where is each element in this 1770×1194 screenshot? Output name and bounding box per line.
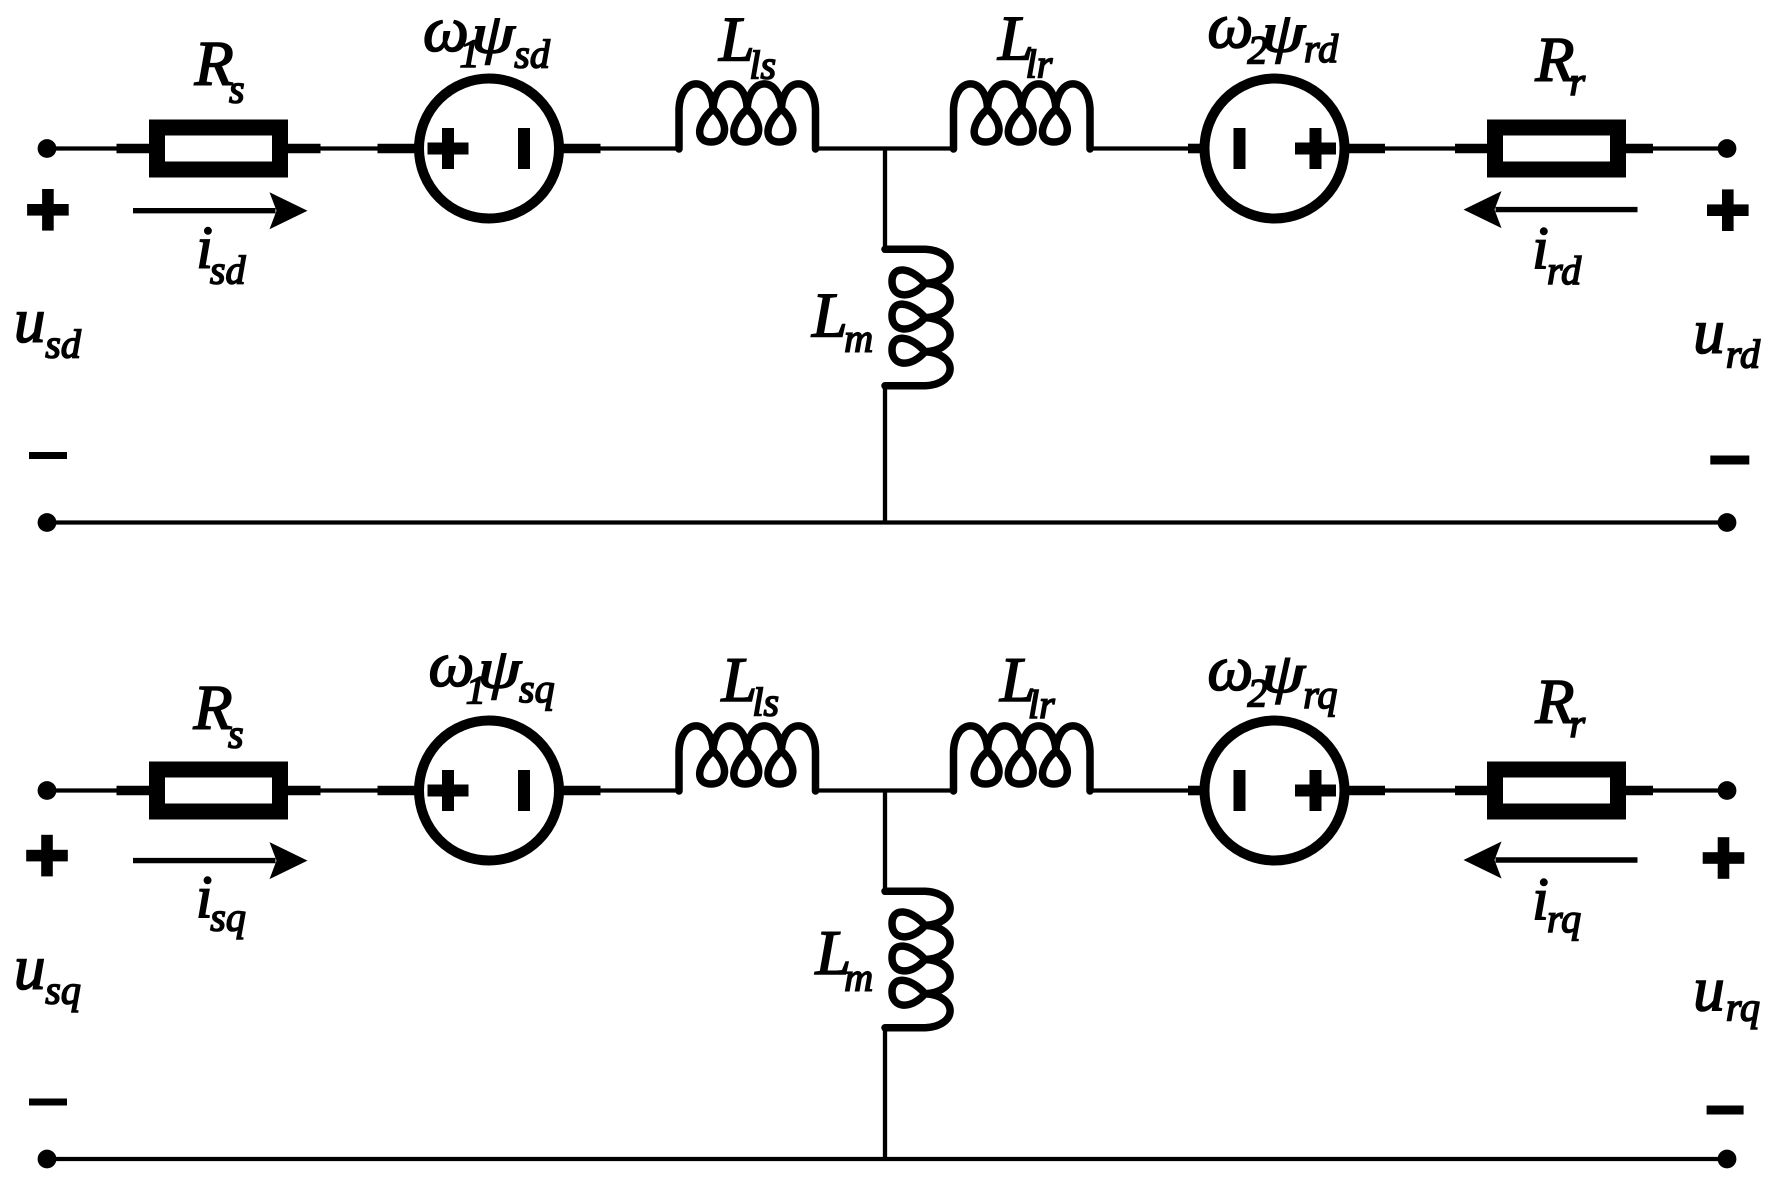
label u_rq [1693,954,1760,1029]
wire [1385,788,1455,792]
label ω₂ψ_rd [1207,0,1339,72]
svg-text:ψ: ψ [478,638,523,700]
wire [816,146,886,150]
svg-text:sq: sq [210,894,246,939]
wire [47,146,117,150]
current arrow i_sd [133,192,308,229]
wire [1090,146,1188,150]
label L_ls (q) [721,644,780,725]
inductor L_lr (q-axis rotor leakage) [954,726,1091,791]
wire (center branch down) [883,791,887,892]
wire [816,788,886,792]
label u_sq [14,933,81,1013]
wire (terminal stub) [1349,786,1386,796]
label L_m (q) [815,917,874,999]
resistor R_r (q-axis) [1495,770,1618,812]
dependent source ω₂ψ_rq (slip emf) [1205,721,1345,861]
label L_ls [718,3,776,87]
svg-text:R: R [193,672,233,743]
svg-text:s: s [228,712,244,757]
wire (terminal stub) [378,786,416,796]
wire (bottom rail) [47,520,1727,524]
svg-text:R: R [1534,24,1574,95]
wire [1653,788,1727,792]
node: bottom-right terminal [1718,513,1737,532]
wire (terminal stub) [563,786,601,796]
svg-text:R: R [1534,666,1574,737]
node: left terminal (d-axis stator) [38,139,57,158]
label R_r [1534,24,1585,104]
node: bottom-left terminal [38,513,57,532]
wire (terminal stub) [1188,786,1201,796]
svg-text:u: u [1693,954,1725,1024]
wire [1385,146,1455,150]
node: bottom-right terminal [1718,1150,1737,1169]
svg-text:ls: ls [749,42,776,87]
wire (terminal stub) [117,144,151,154]
wire [601,146,680,150]
polarity − (u_sq) [29,1099,67,1106]
svg-text:u: u [14,933,46,1003]
svg-text:lr: lr [1028,682,1055,727]
inductor L_m (q-axis magnetizing) [885,891,950,1028]
wire (terminal stub) [1625,786,1653,796]
svg-text:s: s [229,67,245,112]
label L_m [811,280,873,361]
label L_lr (q) [999,644,1055,727]
label u_rd [1693,297,1761,376]
wire (terminal stub) [1188,144,1201,154]
wire (center branch to rail) [883,1028,887,1159]
svg-text:sq: sq [519,666,555,711]
current arrow i_sq [133,842,308,879]
svg-text:rd: rd [1726,331,1761,376]
resistor R_s (d-axis) [157,128,280,170]
svg-text:L: L [811,280,848,351]
svg-text:sd: sd [210,247,247,292]
svg-text:sd: sd [514,32,551,77]
polarity + (u_sq) [26,835,68,877]
svg-text:rq: rq [1726,985,1760,1030]
label R_s [194,28,245,112]
wire [601,788,680,792]
wire [47,788,117,792]
label R_s (q) [193,672,244,757]
inductor L_m (d-axis magnetizing) [885,249,950,385]
wire [885,146,954,150]
label i_sq [196,864,246,939]
svg-text:ls: ls [752,680,779,725]
resistor R_r (d-axis) [1495,128,1618,170]
node: left terminal (q-axis stator) [38,781,57,800]
node: right terminal (q-axis rotor) [1718,781,1737,800]
wire (center branch down) [883,149,887,250]
svg-text:m: m [844,316,873,361]
wire [1090,788,1188,792]
wire (terminal stub) [1349,144,1386,154]
node: right terminal (d-axis rotor) [1718,139,1737,158]
svg-text:ψ: ψ [1262,642,1307,704]
polarity + (u_rd) [1707,189,1749,231]
label R_r (q) [1534,666,1585,746]
svg-text:ω: ω [1207,633,1253,705]
resistor R_s (q-axis) [157,770,280,812]
svg-text:lr: lr [1026,42,1053,87]
wire [885,788,954,792]
svg-text:sq: sq [45,968,81,1013]
svg-text:u: u [1693,297,1725,367]
label u_sd [14,286,82,367]
wire (terminal stub) [378,144,416,154]
label ω₁ψ_sd [423,0,551,77]
polarity − (u_sd) [29,452,67,459]
wire (bottom rail) [47,1157,1727,1161]
dependent source ω₁ψ_sq (speed emf) [419,721,559,861]
wire [321,788,378,792]
wire (terminal stub) [1455,786,1488,796]
svg-text:rq: rq [1303,672,1337,717]
svg-text:ψ: ψ [471,3,516,65]
wire (terminal stub) [1455,144,1488,154]
polarity − (u_rq) [1707,1106,1744,1115]
svg-text:m: m [844,954,873,999]
label i_rq [1532,866,1581,941]
svg-text:rd: rd [1304,26,1339,71]
polarity − (u_rd) [1710,456,1749,465]
svg-text:u: u [14,286,46,356]
svg-text:ψ: ψ [1262,2,1307,64]
svg-text:rd: rd [1547,248,1582,293]
label ω₂ψ_rq [1207,633,1337,717]
wire (terminal stub) [287,786,321,796]
wire (terminal stub) [287,144,321,154]
svg-text:ω: ω [1207,0,1253,63]
current arrow i_rd [1464,191,1638,228]
wire (terminal stub) [117,786,151,796]
node: bottom-left terminal [38,1150,57,1169]
polarity + (u_rq) [1703,837,1745,879]
dependent source ω₂ψ_rd (slip emf) [1205,79,1345,219]
svg-text:r: r [1570,59,1586,104]
inductor L_ls (d-axis stator leakage) [679,84,816,149]
label L_lr [997,3,1053,87]
dependent source ω₁ψ_sd (speed emf) [419,79,559,219]
label ω₁ψ_sq [429,629,555,713]
wire (terminal stub) [563,144,601,154]
current arrow i_rq [1464,842,1638,879]
label i_sd [196,215,246,293]
wire (center branch to rail) [883,386,887,523]
polarity + (u_sd) [27,189,69,231]
wire (terminal stub) [1625,144,1653,154]
svg-text:rq: rq [1547,896,1581,941]
label i_rd [1532,215,1582,293]
svg-text:R: R [194,28,234,99]
inductor L_ls (q-axis stator leakage) [679,726,816,791]
svg-text:sd: sd [45,322,82,367]
svg-text:r: r [1570,701,1586,746]
wire [321,146,378,150]
wire [1653,146,1727,150]
inductor L_lr (d-axis rotor leakage) [954,84,1091,149]
